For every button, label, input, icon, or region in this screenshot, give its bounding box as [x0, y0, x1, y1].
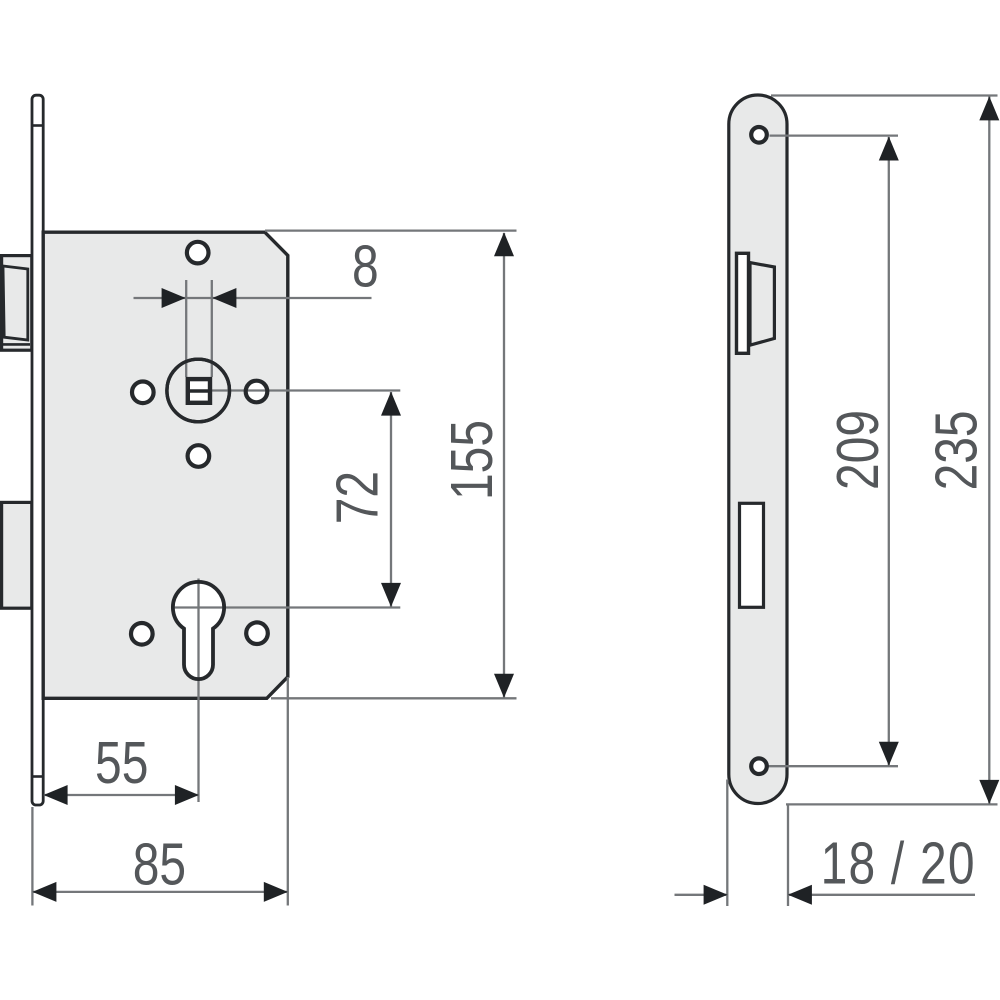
svg-text:55: 55	[95, 730, 148, 796]
svg-text:18 / 20: 18 / 20	[821, 831, 976, 897]
svg-text:235: 235	[924, 410, 990, 490]
svg-text:72: 72	[325, 471, 391, 524]
svg-text:85: 85	[133, 832, 186, 898]
svg-text:209: 209	[825, 410, 891, 490]
svg-text:155: 155	[439, 420, 505, 500]
svg-text:8: 8	[352, 234, 379, 300]
